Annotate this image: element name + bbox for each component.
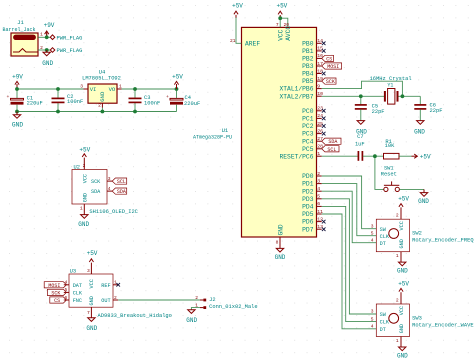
power +9V at input rail — [12, 74, 23, 89]
pin 10 XTAL2/PB7 of U1 — [279, 91, 323, 100]
svg-text:3: 3 — [317, 178, 320, 184]
svg-text:SCK: SCK — [326, 79, 335, 85]
pin 19 PB5 of U1 — [302, 76, 323, 85]
pin 8 GND of U1 — [276, 224, 285, 248]
svg-text:ATmega328P-PU: ATmega328P-PU — [193, 134, 232, 140]
power +5V at AREF — [232, 2, 243, 18]
svg-text:DT: DT — [380, 241, 386, 247]
svg-text:C7: C7 — [357, 134, 363, 140]
svg-text:RESET/PC6: RESET/PC6 — [279, 153, 313, 160]
pin 4 SDA of U2 — [107, 186, 112, 192]
rotary encoder SW3 Rotary_Encoder_WAVE — [371, 298, 474, 344]
svg-text:3: 3 — [87, 268, 90, 274]
svg-text:2: 2 — [317, 171, 320, 177]
svg-text:16MHz Crystal: 16MHz Crystal — [370, 76, 412, 82]
svg-text:8: 8 — [276, 240, 279, 246]
svg-text:+9V: +9V — [12, 74, 23, 81]
ground at J2 — [186, 310, 197, 324]
svg-text:4: 4 — [371, 324, 374, 330]
pin 4 DAT of U3 — [64, 280, 69, 286]
svg-text:AD9833_Breakout_Hidalgo: AD9833_Breakout_Hidalgo — [98, 313, 172, 319]
junction node J1 pin1 — [45, 35, 49, 39]
global label CS at U3 — [50, 297, 67, 304]
svg-text:+5V: +5V — [420, 153, 431, 160]
no-connect X at PC0 — [322, 109, 326, 113]
svg-text:PWR_FLAG: PWR_FLAG — [57, 48, 83, 54]
power +5V at U2 — [79, 147, 90, 170]
pin 20 AVCC of U1 — [284, 22, 293, 41]
no-connect X at PB1 — [322, 49, 326, 53]
svg-text:+: + — [7, 95, 10, 100]
pin 24 PC1 of U1 — [302, 113, 323, 122]
svg-text:GND: GND — [414, 129, 425, 136]
pin 23 PC0 of U1 — [302, 106, 323, 115]
svg-text:PB0: PB0 — [302, 40, 314, 47]
svg-text:5: 5 — [65, 287, 68, 293]
svg-text:REF: REF — [101, 283, 110, 289]
svg-text:22pF: 22pF — [430, 108, 443, 114]
svg-text:PD3: PD3 — [302, 196, 314, 203]
svg-text:3: 3 — [371, 309, 374, 315]
svg-text:PC3: PC3 — [302, 131, 314, 138]
svg-text:SW3: SW3 — [412, 316, 422, 322]
svg-text:SDA: SDA — [117, 189, 126, 195]
OLED U2 SH1106 — [72, 165, 138, 216]
capacitor C2 100nF — [52, 89, 84, 112]
junction node crystal right — [401, 94, 405, 98]
MCU U1 ATmega328P-PU body — [193, 27, 317, 237]
wire PD2 to SW2 DT — [322, 191, 377, 243]
svg-text:FNC: FNC — [73, 298, 82, 304]
svg-text:GND: GND — [12, 121, 23, 128]
svg-text:1: 1 — [396, 253, 399, 259]
svg-text:Conn_01x02_Male: Conn_01x02_Male — [209, 304, 258, 310]
svg-text:PD1: PD1 — [302, 181, 314, 188]
svg-text:OUT: OUT — [101, 298, 110, 304]
svg-text:18: 18 — [317, 68, 323, 74]
svg-text:XTAL1/PB6: XTAL1/PB6 — [279, 86, 313, 93]
svg-text:GND: GND — [42, 60, 53, 67]
pin 5 CLK of U3 — [64, 287, 69, 293]
resistor R1 10K — [384, 139, 400, 159]
junction node crystal left — [359, 94, 363, 98]
svg-text:Rotary_Encoder_WAVE: Rotary_Encoder_WAVE — [412, 323, 473, 329]
wire C7 to R1 — [363, 155, 384, 157]
svg-text:25: 25 — [317, 121, 323, 127]
svg-text:1: 1 — [119, 84, 122, 90]
svg-text:+5V: +5V — [79, 147, 90, 154]
svg-text:Rotary_Encoder_FREQ: Rotary_Encoder_FREQ — [412, 238, 473, 244]
capacitor C3 100nF — [129, 89, 161, 112]
ground at SW3 — [397, 337, 408, 360]
svg-text:5: 5 — [371, 316, 374, 322]
svg-text:GND: GND — [275, 254, 286, 261]
svg-text:PD4: PD4 — [302, 204, 314, 211]
no-connect X at PD7 — [322, 227, 326, 231]
connector J1 Barrel_Jack — [2, 19, 38, 56]
svg-text:PD5: PD5 — [302, 211, 314, 218]
pin 6 FNC of U3 — [64, 295, 69, 301]
power flag PWR_FLAG on GND — [50, 48, 82, 54]
svg-text:GND: GND — [399, 239, 405, 248]
pin 14 PB0 of U1 — [302, 38, 323, 47]
svg-text:SW2: SW2 — [412, 231, 422, 237]
svg-text:13: 13 — [317, 224, 323, 230]
svg-text:15: 15 — [317, 46, 323, 52]
svg-text:3: 3 — [371, 223, 374, 229]
svg-text:U1: U1 — [222, 127, 229, 134]
wire bottom ground rail — [17, 111, 177, 113]
svg-text:PC4: PC4 — [302, 138, 314, 145]
svg-text:12: 12 — [317, 216, 323, 222]
svg-text:4: 4 — [371, 237, 374, 243]
svg-text:100nF: 100nF — [144, 101, 160, 107]
global label SDA at U2 — [112, 188, 127, 195]
junction rail nodes — [15, 87, 178, 113]
capacitor C1 220uF — [7, 89, 43, 112]
svg-text:GND: GND — [418, 198, 429, 205]
svg-text:14: 14 — [317, 38, 323, 44]
wire PD0 to SW2 SW — [322, 176, 377, 229]
svg-text:SH1106_OLED_I2C: SH1106_OLED_I2C — [89, 209, 138, 215]
svg-text:GND: GND — [399, 324, 405, 333]
svg-text:CLK: CLK — [380, 320, 390, 326]
svg-text:CLK: CLK — [73, 291, 83, 297]
pin 2 OUT of U3 — [113, 295, 118, 301]
global label SCL at PC5 — [322, 146, 339, 153]
global label MOSI at PB3 — [322, 63, 342, 70]
capacitor C5 22pF — [355, 96, 385, 120]
svg-text:Reset: Reset — [381, 171, 397, 177]
svg-text:+: + — [166, 95, 169, 100]
ground at SW1 — [418, 189, 429, 205]
pin 26 PC3 of U1 — [302, 128, 323, 137]
svg-text:2: 2 — [98, 102, 101, 108]
power flag PWR_FLAG on +9V — [50, 35, 82, 41]
wire crystal right lead — [398, 95, 420, 97]
pin 7 VCC of U1 — [276, 22, 284, 41]
wire PD5 to SW3 DT — [322, 214, 377, 329]
svg-text:GND: GND — [99, 91, 106, 102]
svg-text:23: 23 — [317, 106, 323, 112]
wire PD3 to SW3 SW — [322, 199, 377, 314]
svg-text:VO: VO — [109, 86, 116, 93]
svg-text:SW: SW — [380, 227, 387, 233]
power +5V at SW2 — [398, 196, 409, 220]
svg-text:MOSI: MOSI — [48, 283, 60, 289]
wire XTAL2/PB7 to crystal left node — [322, 95, 361, 97]
power +5V at SW3 — [398, 281, 409, 304]
svg-text:2: 2 — [83, 163, 86, 169]
svg-text:PC0: PC0 — [302, 108, 314, 115]
svg-text:4: 4 — [317, 186, 320, 192]
no-connect X at PC3 — [322, 132, 326, 136]
svg-text:CS: CS — [54, 298, 60, 304]
svg-text:U2: U2 — [74, 165, 80, 171]
no-connect X at PC1 — [322, 117, 326, 121]
svg-text:PC1: PC1 — [302, 116, 314, 123]
svg-text:LM7805L_TO92: LM7805L_TO92 — [82, 76, 121, 82]
global label SCK at U3 — [47, 289, 66, 296]
svg-text:GND: GND — [397, 268, 408, 275]
wire R1 to +5V — [399, 155, 412, 157]
pin 4 PD2 of U1 — [302, 186, 322, 195]
svg-text:1: 1 — [40, 31, 43, 37]
wire PD1 to SW2 CLK — [322, 184, 377, 236]
svg-text:9: 9 — [317, 83, 320, 89]
svg-text:100nF: 100nF — [67, 99, 83, 105]
svg-text:MOSI: MOSI — [327, 64, 339, 70]
wire to VCC pin 7 — [279, 18, 281, 27]
no-connect X at REF — [116, 283, 120, 287]
wire RESET to C7 — [322, 155, 358, 157]
svg-text:Barrel_Jack: Barrel_Jack — [2, 27, 35, 33]
svg-text:PB1: PB1 — [302, 48, 314, 55]
svg-text:PD7: PD7 — [302, 226, 314, 233]
power +5V at R1 — [412, 153, 432, 160]
svg-text:GND: GND — [82, 193, 88, 202]
svg-text:GND: GND — [89, 296, 95, 305]
pin 3 PD1 of U1 — [302, 178, 322, 187]
power +9V at J1 — [44, 22, 55, 38]
power +5V at U3 — [87, 250, 98, 274]
pin 11 PD5 of U1 — [302, 209, 323, 218]
svg-text:AREF: AREF — [245, 41, 260, 48]
pin 2 PD0 of U1 — [302, 171, 322, 180]
wire J1 pin2 to node — [38, 49, 50, 51]
svg-text:1uF: 1uF — [355, 142, 365, 148]
ground at input rail — [12, 112, 23, 129]
wire +5V to AREF — [236, 18, 242, 44]
svg-text:SDA: SDA — [91, 189, 101, 195]
no-connect X at PC2 — [322, 124, 326, 128]
svg-text:GND: GND — [277, 224, 284, 235]
ground at U2 — [78, 204, 89, 228]
svg-text:1: 1 — [317, 151, 320, 157]
junction node reset — [373, 154, 377, 158]
svg-text:1: 1 — [396, 338, 399, 344]
svg-text:CS: CS — [326, 56, 332, 62]
pin 1 REF of U3 — [113, 280, 118, 286]
svg-text:AVCC: AVCC — [285, 26, 292, 41]
pin 12 PD6 of U1 — [302, 216, 323, 225]
svg-text:VCC: VCC — [82, 174, 88, 183]
svg-text:GND: GND — [186, 317, 197, 324]
svg-text:VCC: VCC — [399, 221, 405, 230]
pin 3 of U4 — [80, 84, 88, 90]
svg-text:SCK: SCK — [91, 179, 101, 185]
pin 1 of U4 — [117, 84, 122, 90]
no-connect X at PD6 — [322, 220, 326, 224]
svg-text:SCL: SCL — [117, 179, 126, 185]
no-connect X at PB4 — [322, 72, 326, 76]
svg-text:+9V: +9V — [44, 22, 55, 29]
svg-text:3: 3 — [80, 84, 83, 90]
wire node to C6 — [419, 96, 421, 104]
global label CS at PB2 — [322, 55, 334, 62]
global label SCL at U2 — [112, 178, 127, 185]
svg-text:J1: J1 — [17, 19, 24, 26]
svg-text:220uF: 220uF — [27, 100, 43, 106]
wire PD4 to SW3 CLK — [322, 206, 377, 321]
pin 2 of U4 — [98, 102, 102, 111]
ground at J1 — [42, 50, 53, 67]
capacitor C7 1uF — [355, 134, 365, 161]
svg-text:PB4: PB4 — [302, 71, 314, 78]
svg-text:GND: GND — [86, 325, 97, 332]
wire input rail top left — [17, 88, 88, 90]
svg-text:VI: VI — [90, 86, 97, 93]
svg-text:PB2: PB2 — [302, 56, 314, 63]
pin 6 PD4 of U1 — [302, 201, 322, 210]
svg-text:PD0: PD0 — [302, 173, 314, 180]
svg-text:4: 4 — [108, 186, 111, 192]
crystal Y1 16MHz — [370, 76, 412, 104]
svg-text:2: 2 — [396, 298, 399, 304]
svg-text:Y1: Y1 — [387, 82, 393, 88]
svg-text:+5V: +5V — [276, 2, 287, 9]
wire SW1 to ground — [400, 188, 425, 190]
svg-text:VCC: VCC — [399, 306, 405, 315]
svg-text:24: 24 — [317, 113, 323, 119]
svg-text:26: 26 — [317, 128, 323, 134]
pin 28 PC5 of U1 — [302, 144, 323, 153]
ground at SW2 — [397, 252, 408, 275]
power +5V at output rail — [172, 74, 183, 89]
svg-text:1: 1 — [114, 280, 117, 286]
svg-text:6: 6 — [317, 201, 320, 207]
pin 21 AREF of U1 — [230, 38, 260, 48]
global label SDA at PC4 — [322, 138, 341, 145]
pin 17 PB3 of U1 — [302, 61, 323, 70]
svg-text:VCC: VCC — [89, 279, 95, 288]
pin 1 RESET/PC6 of U1 — [279, 151, 321, 160]
svg-text:+5V: +5V — [232, 2, 243, 9]
svg-text:7: 7 — [87, 310, 90, 316]
pin 15 PB1 of U1 — [302, 46, 323, 55]
svg-text:PB3: PB3 — [302, 63, 314, 70]
svg-text:+5V: +5V — [87, 250, 98, 257]
svg-text:7: 7 — [276, 22, 279, 28]
wire reset node to SW1 — [375, 156, 384, 189]
connector J2 Conn_01x02_Male — [195, 295, 257, 310]
pin 13 PD7 of U1 — [302, 224, 323, 233]
rotary encoder SW2 Rotary_Encoder_FREQ — [371, 213, 474, 259]
svg-text:21: 21 — [230, 38, 236, 44]
svg-text:CLK: CLK — [380, 234, 390, 240]
pin 5 PD3 of U1 — [302, 194, 322, 203]
svg-text:3: 3 — [108, 176, 111, 182]
ground at C5 — [356, 121, 367, 136]
svg-text:5: 5 — [317, 194, 320, 200]
svg-text:SCL: SCL — [327, 147, 336, 153]
svg-text:SCK: SCK — [51, 290, 60, 296]
wire XTAL1/PB6 to crystal right node — [322, 81, 403, 96]
svg-text:22pF: 22pF — [372, 109, 385, 115]
no-connect X at PB0 — [322, 42, 326, 46]
svg-text:SW: SW — [380, 312, 387, 318]
switch SW1 Reset — [381, 166, 400, 192]
svg-text:1: 1 — [80, 205, 83, 211]
wire output rail top right — [117, 88, 177, 90]
svg-text:PD6: PD6 — [302, 219, 314, 226]
wire OUT to J2 — [118, 299, 200, 301]
power +5V at VCC/AVCC — [276, 2, 287, 18]
svg-text:GND: GND — [78, 221, 89, 228]
global label MOSI at U3 — [44, 282, 66, 289]
wire J1 pin1 to node — [38, 36, 50, 38]
ground at C6 — [414, 121, 425, 136]
svg-text:10K: 10K — [385, 143, 395, 149]
junction node VCC — [278, 16, 282, 20]
svg-text:2: 2 — [396, 213, 399, 219]
svg-text:PC5: PC5 — [302, 146, 314, 153]
ground at U1 — [275, 248, 286, 260]
svg-text:PD2: PD2 — [302, 188, 314, 195]
pin 25 PC2 of U1 — [302, 121, 323, 130]
svg-text:SDA: SDA — [328, 139, 337, 145]
pin 9 XTAL1/PB6 of U1 — [279, 83, 321, 92]
svg-text:VCC: VCC — [277, 29, 284, 40]
svg-text:5: 5 — [371, 230, 374, 236]
svg-text:2: 2 — [195, 295, 198, 301]
wire crystal left lead — [361, 95, 384, 97]
svg-text:DAT: DAT — [73, 283, 82, 289]
capacitor C4 220uF — [166, 89, 200, 112]
svg-text:220uF: 220uF — [184, 101, 200, 107]
pin 3 SCK of U2 — [107, 176, 112, 182]
wire to AVCC pin 20 — [280, 18, 288, 27]
svg-text:+5V: +5V — [172, 74, 183, 81]
svg-text:DT: DT — [380, 327, 386, 333]
capacitor C6 22pF — [414, 103, 442, 121]
svg-text:U4: U4 — [99, 69, 106, 76]
svg-text:XTAL2/PB7: XTAL2/PB7 — [279, 93, 313, 100]
svg-text:PWR_FLAG: PWR_FLAG — [57, 35, 83, 41]
pin 27 PC4 of U1 — [302, 136, 323, 145]
svg-text:U3: U3 — [70, 268, 76, 274]
svg-text:+5V: +5V — [398, 281, 409, 288]
svg-text:2: 2 — [114, 295, 117, 301]
ground at U3 — [86, 307, 97, 332]
wire J2 pin1 to ground — [191, 308, 199, 310]
svg-text:J2: J2 — [209, 297, 215, 303]
global label SCK at PB5 — [322, 78, 336, 85]
svg-text:+5V: +5V — [398, 196, 409, 203]
module U3 AD9833 — [69, 268, 172, 319]
svg-text:PC2: PC2 — [302, 123, 314, 130]
svg-text:PB5: PB5 — [302, 78, 314, 85]
pin 18 PB4 of U1 — [302, 68, 323, 77]
junction node J1 pin2 — [45, 48, 49, 52]
pin 16 PB2 of U1 — [302, 53, 323, 62]
svg-text:6: 6 — [65, 295, 68, 301]
svg-text:4: 4 — [65, 280, 68, 286]
svg-text:GND: GND — [397, 353, 408, 360]
regulator U4 LM7805L_TO92 — [82, 69, 121, 104]
